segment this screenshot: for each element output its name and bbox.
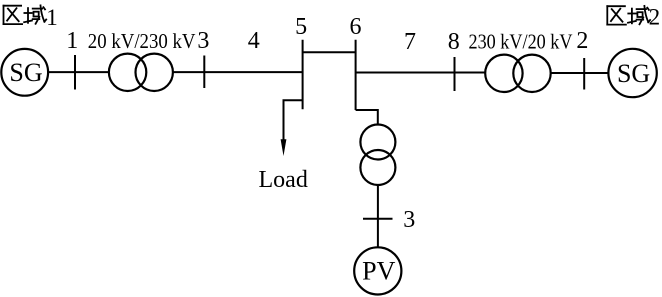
svg-text:8: 8 xyxy=(448,29,460,55)
bus 6 bar xyxy=(355,40,357,110)
svg-text:PV: PV xyxy=(362,257,395,286)
wire tie bus 5 to bus 6 xyxy=(303,51,356,53)
svg-text:SG: SG xyxy=(9,58,42,87)
bus 5 bar xyxy=(302,40,304,110)
wire T1 to bus 5 (line 4) xyxy=(173,71,303,73)
svg-text:230 kV/20 kV: 230 kV/20 kV xyxy=(469,29,573,53)
svg-text:1: 1 xyxy=(66,28,78,54)
generator PV xyxy=(354,247,401,294)
svg-text:1: 1 xyxy=(46,5,58,30)
label 区域2 (Region 2) xyxy=(607,6,650,25)
svg-text:Load: Load xyxy=(259,167,308,193)
svg-text:3: 3 xyxy=(197,28,209,54)
wire T2 to SG2 xyxy=(551,72,609,74)
label 区域1 (Region 1) xyxy=(4,5,47,24)
wire bus 6 to transformer T3 xyxy=(356,110,378,125)
bus 3 (PV bus) xyxy=(363,218,393,220)
transformer T3 (PV step-up) xyxy=(360,125,395,186)
svg-text:SG: SG xyxy=(617,59,650,88)
transformer T2 xyxy=(485,55,551,92)
svg-text:3: 3 xyxy=(403,207,415,233)
transformer T1 xyxy=(109,54,173,91)
svg-text:7: 7 xyxy=(404,29,416,55)
wire bus 6 to transformer T2 (line 7) xyxy=(356,72,486,74)
bus 1 xyxy=(74,55,76,90)
wire SG1 to transformer T1 xyxy=(48,71,109,73)
wire T3 to PV xyxy=(377,185,379,247)
bus 2 xyxy=(583,58,585,90)
load arrow xyxy=(281,139,287,156)
generator SG1 xyxy=(1,49,48,96)
generator SG2 xyxy=(608,49,656,97)
svg-text:2: 2 xyxy=(649,5,661,30)
svg-text:2: 2 xyxy=(576,28,588,54)
svg-text:6: 6 xyxy=(350,14,362,40)
svg-text:20 kV/230 kV: 20 kV/230 kV xyxy=(88,29,196,53)
bus 3 xyxy=(203,56,205,89)
wire load branch from bus 5 xyxy=(284,100,303,148)
svg-text:4: 4 xyxy=(248,28,260,54)
bus 8 xyxy=(454,57,456,91)
svg-text:5: 5 xyxy=(295,14,307,40)
